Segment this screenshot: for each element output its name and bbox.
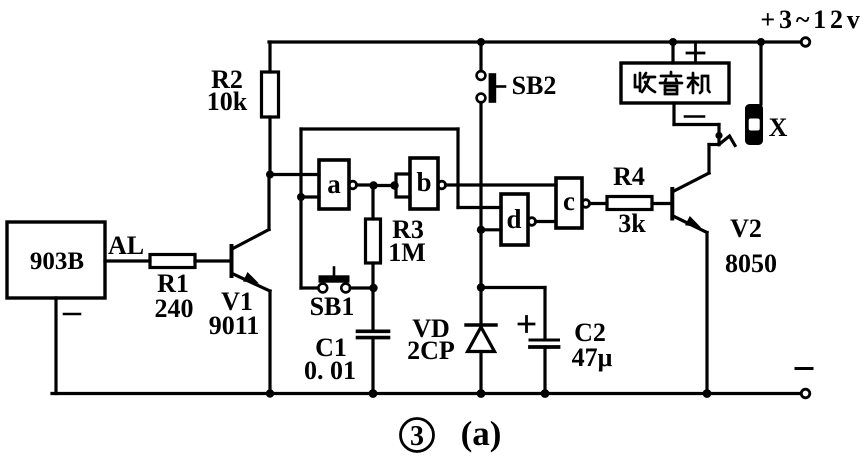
node plug junction bbox=[715, 132, 722, 139]
node gate a input 2 junction bbox=[297, 193, 305, 201]
wire d out to gate c input 2 bbox=[536, 220, 557, 223]
wire feedback top horizontal bbox=[301, 127, 458, 130]
gate b input bracket bbox=[396, 174, 410, 197]
svg-text:V2: V2 bbox=[730, 214, 762, 243]
node V2 emitter to rail bbox=[703, 389, 712, 398]
label minus bottom right bbox=[796, 367, 812, 370]
node SB1/R3/C1 bbox=[369, 284, 377, 292]
node gate d input 2 junction bbox=[477, 226, 485, 234]
svg-text:SB1: SB1 bbox=[310, 292, 355, 321]
wire SB1 to C1 node bbox=[350, 286, 370, 289]
node SB2 rail junction bbox=[477, 38, 485, 46]
svg-text:AL: AL bbox=[108, 231, 144, 260]
svg-text:3: 3 bbox=[410, 421, 424, 452]
wire radio plus lead bbox=[671, 42, 674, 63]
wire c out to R4 bbox=[590, 202, 608, 205]
svg-text:d: d bbox=[506, 204, 521, 234]
wire VD node to C2 bbox=[481, 286, 545, 289]
wire to gate d input 1 bbox=[458, 206, 501, 209]
wire SB2 down bbox=[479, 103, 482, 324]
svg-text:R4: R4 bbox=[613, 162, 645, 191]
svg-text:2CP: 2CP bbox=[407, 336, 455, 365]
node radio plus junction bbox=[669, 38, 677, 46]
block radio (shou-yin-ji) bbox=[621, 63, 729, 103]
svg-text:(a): (a) bbox=[461, 414, 502, 453]
wire jack X lead bbox=[759, 42, 762, 104]
wire 903B to R1 bbox=[105, 259, 150, 262]
gate a bbox=[319, 160, 349, 209]
node gate b input bbox=[390, 181, 398, 189]
terminal +V top right bbox=[801, 38, 810, 47]
node VD to rail bbox=[477, 389, 486, 398]
pushbutton SB2 bbox=[477, 42, 505, 103]
svg-text:c: c bbox=[563, 186, 575, 216]
node C1 to rail bbox=[369, 389, 378, 398]
capacitor C1 bbox=[358, 288, 389, 394]
svg-text:1M: 1M bbox=[388, 238, 426, 267]
svg-text:8050: 8050 bbox=[725, 249, 777, 278]
gate c bbox=[556, 178, 582, 228]
wire to gate d input 2 bbox=[481, 228, 501, 231]
wire to gate a input 2 bbox=[301, 195, 319, 198]
node VD top junction bbox=[477, 283, 485, 291]
wire junction to gate a input 1 bbox=[270, 173, 319, 176]
terminal minus bottom right bbox=[801, 389, 810, 398]
label minus radio bbox=[685, 115, 704, 118]
wire top power rail bbox=[269, 40, 801, 43]
wire feedback right vertical bbox=[456, 129, 459, 208]
node R3 tap bbox=[369, 181, 377, 189]
label plus radio bbox=[687, 45, 704, 62]
svg-text:9011: 9011 bbox=[209, 311, 260, 340]
svg-text:X: X bbox=[769, 113, 788, 142]
svg-text:+3~12v: +3~12v bbox=[760, 5, 863, 34]
wire b out to gate c input 1 bbox=[446, 183, 557, 186]
wire R1 to V1 base bbox=[195, 259, 229, 262]
gate b bbox=[410, 158, 438, 209]
svg-text:SB2: SB2 bbox=[512, 71, 557, 100]
wire feedback left vertical bbox=[299, 129, 302, 288]
pushbutton SB1 bbox=[318, 268, 350, 293]
block 903B bbox=[7, 222, 105, 298]
label minus 903B bbox=[64, 313, 80, 316]
svg-text:240: 240 bbox=[155, 294, 194, 323]
transistor V1 9011 bbox=[232, 175, 271, 394]
diode VD 2CP bbox=[466, 325, 496, 394]
wire radio minus lead bbox=[674, 103, 719, 145]
gate c output bubble bbox=[582, 200, 590, 208]
wire R4 to V2 base bbox=[652, 202, 670, 205]
svg-text:b: b bbox=[416, 167, 431, 197]
wire elbow to SB1 bbox=[301, 286, 318, 289]
wire node to node b bbox=[374, 184, 392, 187]
resistor R3 bbox=[366, 190, 381, 285]
caption circled 3 bbox=[401, 419, 434, 453]
wire 903B minus lead bbox=[54, 298, 57, 394]
node V1 emitter to rail bbox=[266, 389, 274, 397]
resistor R2 bbox=[262, 42, 279, 172]
gate a output bubble bbox=[349, 181, 357, 189]
gate b output bubble bbox=[438, 181, 446, 189]
plug symbol bbox=[719, 136, 735, 146]
svg-text:903B: 903B bbox=[30, 248, 84, 275]
capacitor C2 bbox=[530, 340, 559, 394]
gate d bbox=[501, 194, 528, 245]
resistor R4 bbox=[607, 197, 652, 210]
resistor R1 bbox=[150, 255, 195, 268]
svg-text:10k: 10k bbox=[207, 87, 248, 116]
node R2/V1 collector junction bbox=[266, 171, 274, 179]
svg-text:a: a bbox=[327, 169, 341, 199]
svg-text:47μ: 47μ bbox=[572, 343, 613, 372]
label radio characters bbox=[635, 72, 710, 94]
node jack X rail junction bbox=[757, 38, 765, 46]
wire bottom rail bbox=[52, 392, 801, 395]
capacitor C2 polarity plus bbox=[519, 317, 534, 332]
transistor V2 8050 bbox=[672, 145, 719, 394]
node C2 to rail bbox=[541, 389, 550, 398]
wire a out to node bbox=[357, 183, 371, 186]
svg-text:3k: 3k bbox=[618, 209, 646, 238]
jack X bbox=[745, 104, 763, 145]
gate d output bubble bbox=[528, 218, 536, 226]
svg-text:0. 01: 0. 01 bbox=[304, 356, 356, 385]
